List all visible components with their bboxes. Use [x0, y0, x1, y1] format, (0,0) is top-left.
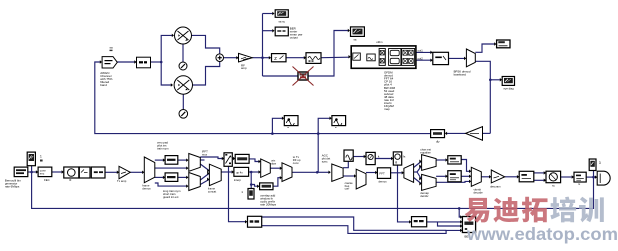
svg-text:conv: conv [293, 161, 300, 165]
svg-text:deintlv: deintlv [420, 194, 429, 198]
svg-text:concat: concat [208, 189, 216, 193]
svg-text:=: = [335, 126, 337, 130]
svg-text:mux: mux [202, 152, 208, 156]
svg-text:guard int ext: guard int ext [163, 195, 179, 199]
svg-text:band: band [100, 83, 107, 87]
svg-text:Tx amp: Tx amp [117, 179, 127, 183]
svg-text:demux: demux [379, 179, 388, 183]
svg-text:dow: dow [271, 161, 276, 165]
svg-text:sa: sa [110, 46, 114, 50]
svg-text:enc: enc [40, 172, 45, 176]
svg-text:out2: out2 [418, 56, 424, 60]
svg-text:IF: IF [69, 178, 72, 182]
svg-text:dly: dly [436, 139, 440, 143]
svg-text:rate 6Mbps: rate 6Mbps [5, 184, 20, 188]
svg-text:map: map [384, 107, 390, 111]
svg-text:amp: amp [241, 66, 247, 70]
svg-text:1: 1 [40, 155, 42, 159]
svg-text:interp: interp [234, 178, 241, 182]
svg-text:sync: sync [322, 159, 328, 163]
svg-text:rate 20Msps: rate 20Msps [260, 203, 276, 207]
svg-text:θ: θ [395, 161, 397, 165]
svg-text:sa: sa [354, 38, 357, 42]
svg-text:decode: decode [474, 190, 484, 194]
svg-text:FEC: FEC [44, 178, 50, 182]
svg-text:corr: corr [345, 187, 350, 191]
svg-text:descram: descram [490, 185, 501, 189]
svg-text:demux: demux [142, 186, 151, 190]
svg-text:sa sc: sa sc [279, 19, 286, 23]
svg-text:FFT: FFT [379, 172, 385, 176]
svg-text:www.edatop.com: www.edatop.com [466, 224, 618, 244]
svg-text:out1: out1 [418, 49, 424, 53]
svg-text:train sym: train sym [157, 146, 169, 150]
svg-text:equalize: equalize [420, 150, 431, 154]
svg-text:Z: Z [274, 56, 277, 61]
svg-text:output: output [290, 36, 298, 40]
svg-text:3: 3 [599, 161, 601, 165]
svg-text:up 4x: up 4x [236, 171, 243, 175]
svg-text:ofdm: ofdm [376, 40, 383, 44]
svg-text:eye diag: eye diag [504, 86, 515, 90]
svg-text:=: = [287, 126, 289, 130]
svg-text:baseband: baseband [454, 72, 467, 76]
